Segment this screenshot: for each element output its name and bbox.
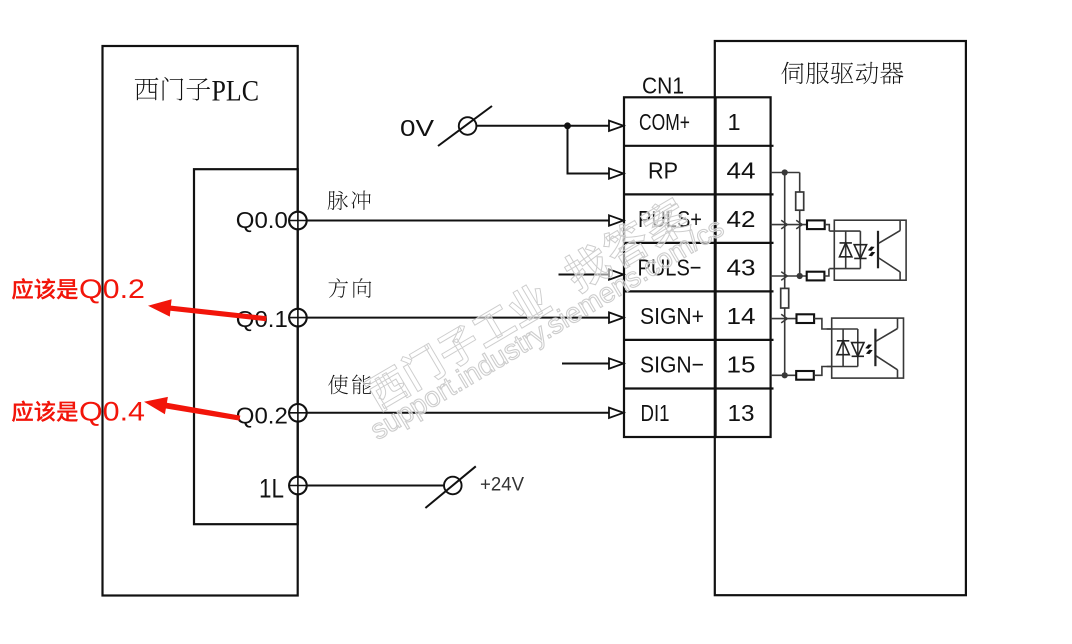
svg-text:SIGN−: SIGN− bbox=[640, 352, 704, 378]
wire Q0.2 to DI1 使能 bbox=[306, 412, 609, 414]
red note 应该是Q0.4 bbox=[12, 401, 78, 423]
wire label 方向 bbox=[329, 278, 372, 298]
arrow into PULS+ bbox=[609, 215, 624, 225]
svg-text:Q0.0: Q0.0 bbox=[236, 207, 288, 233]
svg-text:RP: RP bbox=[648, 158, 678, 184]
red arrow to Q0.1 bbox=[148, 299, 267, 321]
resistor R3 bbox=[807, 220, 825, 229]
wire RP to pull-up rails bbox=[771, 172, 800, 174]
wire 0V to COM+ bbox=[476, 125, 609, 127]
resistor R2 vertical bbox=[781, 288, 789, 308]
wire PULS+ 42 to opto bbox=[771, 224, 807, 226]
light arrows bbox=[868, 247, 875, 251]
stub wire SIGN- bbox=[562, 363, 610, 365]
wire Q0.1 to SIGN+ 方向 bbox=[306, 317, 609, 319]
resistor R5 bbox=[797, 314, 815, 323]
svg-text:42: 42 bbox=[727, 206, 756, 232]
CN1 connector table bbox=[624, 97, 774, 437]
anti-parallel LED pair bbox=[840, 243, 867, 259]
rail to SIGN side bbox=[784, 173, 786, 376]
wire label 脉冲 bbox=[328, 191, 371, 210]
junction dot PULS- bbox=[797, 273, 803, 279]
arrow into DI1 bbox=[609, 408, 624, 418]
terminal Q0.2 bbox=[289, 404, 307, 422]
svg-text:13: 13 bbox=[728, 400, 755, 426]
arrow into RP bbox=[609, 168, 624, 178]
svg-text:14: 14 bbox=[727, 303, 756, 329]
PLC inner output block bbox=[194, 169, 298, 524]
svg-text:44: 44 bbox=[727, 158, 756, 184]
elbow into opto2 cathode bbox=[814, 367, 832, 376]
svg-text:CN1: CN1 bbox=[642, 73, 684, 99]
svg-text:1: 1 bbox=[727, 109, 740, 135]
svg-text:Q0.2: Q0.2 bbox=[236, 402, 288, 428]
wire PULS- 43 bbox=[771, 275, 807, 277]
svg-text:0V: 0V bbox=[400, 115, 434, 141]
svg-text:1L: 1L bbox=[259, 474, 284, 504]
svg-text:43: 43 bbox=[727, 255, 756, 281]
svg-text:Q0.2: Q0.2 bbox=[79, 274, 145, 304]
svg-text:SIGN+: SIGN+ bbox=[640, 303, 704, 329]
red note 应该是Q0.2 bbox=[12, 278, 78, 300]
elbow into opto1 anode bbox=[825, 225, 830, 232]
svg-text:COM+: COM+ bbox=[639, 109, 690, 135]
PLC title 西门子 bbox=[135, 77, 210, 101]
svg-text:15: 15 bbox=[727, 352, 756, 378]
wire 1L to +24V bbox=[306, 485, 444, 487]
rail to PULS side bbox=[799, 173, 801, 277]
junction dot RP rail bbox=[782, 169, 788, 175]
opto outer body bbox=[834, 220, 906, 280]
optocoupler U2 (SIGN) bbox=[827, 318, 904, 378]
crossing chevron SIGN+ bbox=[781, 314, 787, 323]
resistor R1 vertical bbox=[796, 192, 804, 210]
stub wire PULS- bbox=[559, 274, 610, 276]
connector symbol 0V bbox=[459, 117, 477, 135]
svg-text:+24V: +24V bbox=[480, 475, 524, 496]
LED branch wires bbox=[829, 231, 860, 269]
wire SIGN- 15 bbox=[771, 374, 797, 376]
elbow into opto1 cathode bbox=[824, 269, 829, 276]
red arrow to Q0.2 bbox=[144, 397, 240, 421]
junction dot 0V branch bbox=[564, 122, 571, 129]
resistor R4 bbox=[807, 272, 825, 281]
svg-text:DI1: DI1 bbox=[641, 400, 670, 426]
svg-text:PLC: PLC bbox=[212, 75, 260, 108]
svg-text:Q0.4: Q0.4 bbox=[79, 396, 145, 426]
terminal Q0.0 bbox=[289, 212, 307, 230]
wire label 使能 bbox=[328, 375, 371, 395]
terminal Q0.1 bbox=[289, 309, 307, 327]
wire Q0.0 to PULS+ 脉冲 bbox=[306, 220, 609, 222]
junction dot SIGN- bbox=[782, 372, 788, 378]
PLC box 西门子PLC bbox=[103, 46, 298, 596]
optocoupler U1 (PULS) bbox=[829, 220, 906, 280]
wire SIGN+ 14 to opto bbox=[771, 318, 797, 320]
+24V connector bbox=[444, 477, 462, 495]
phototransistor bbox=[877, 231, 879, 268]
arrow into SIGN- bbox=[609, 358, 624, 368]
terminal 1L bbox=[289, 477, 307, 495]
wire 0V branch to RP bbox=[568, 126, 610, 174]
resistor R6 bbox=[796, 371, 814, 380]
arrow into COM+ bbox=[609, 121, 624, 131]
arrow into PULS- bbox=[609, 269, 624, 279]
watermark 西门子工业 找答案 + url bbox=[361, 194, 694, 413]
crossing chevron PULS- bbox=[781, 272, 787, 281]
crossing chevrons PULS+ bbox=[781, 220, 802, 229]
arrow into SIGN+ bbox=[609, 312, 624, 322]
elbow into opto2 anode bbox=[814, 319, 832, 329]
servo driver box 伺服驱动器 bbox=[715, 41, 966, 595]
